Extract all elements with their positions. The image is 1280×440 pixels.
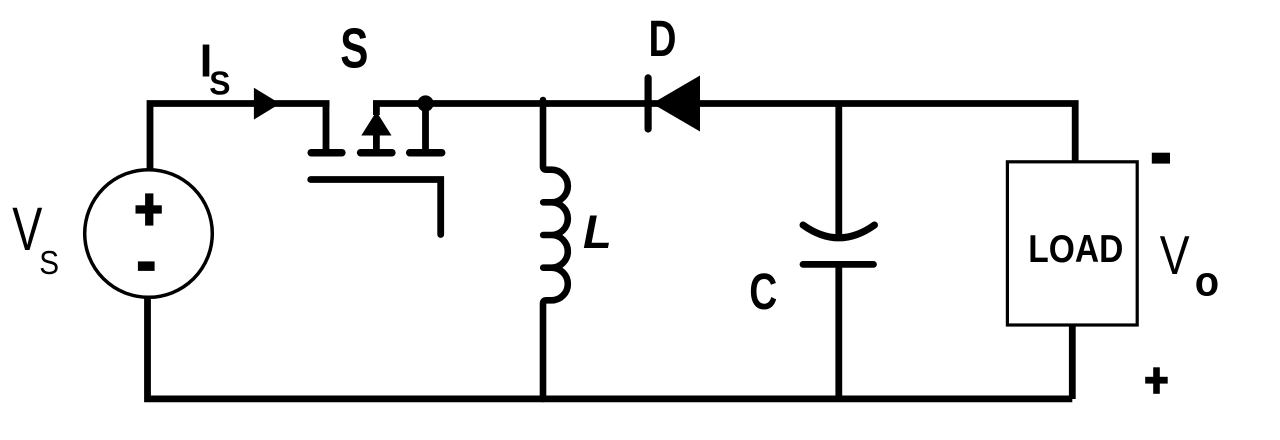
svg-text:S: S (39, 245, 59, 282)
cathode bar (644, 78, 651, 129)
left channel bar (311, 149, 342, 157)
bottom wire (835, 264, 842, 399)
gate line (311, 180, 441, 235)
wire load bottom to rail (1069, 326, 1076, 399)
node dot at source/rail junction (417, 95, 433, 111)
source stub (422, 104, 429, 150)
label Vo (1160, 225, 1219, 305)
svg-text:D: D (649, 10, 677, 67)
anode triangle (652, 76, 700, 132)
label plus (bottom of load) (1145, 367, 1168, 394)
load box (1007, 162, 1137, 325)
label Is (200, 35, 231, 102)
curved plate (803, 225, 875, 238)
voltage source VS (85, 170, 213, 298)
middle channel bar (361, 149, 392, 157)
body arrow stub (373, 104, 380, 116)
wire top rail right segment (373, 104, 1075, 163)
svg-text:C: C (749, 263, 777, 320)
wire left vertical from Vs top to rail (150, 104, 330, 171)
right channel bar (410, 149, 442, 157)
svg-text:S: S (209, 64, 230, 102)
label VS (12, 196, 59, 282)
svg-text:L: L (583, 205, 612, 258)
transistor S (MOSFET switch) (311, 101, 442, 235)
capacitor C (803, 104, 875, 400)
current arrow Is (254, 88, 280, 120)
svg-text:V: V (12, 196, 42, 264)
svg-text:LOAD: LOAD (1028, 226, 1123, 270)
wire bottom rail (148, 297, 1073, 399)
svg-text:S: S (340, 16, 368, 80)
label minus (top of load) (1152, 153, 1170, 164)
svg-text:V: V (1160, 225, 1190, 286)
straight plate (803, 261, 874, 268)
top wire (835, 104, 842, 238)
diode D (648, 76, 700, 132)
inductor L (543, 100, 568, 399)
svg-text:o: o (1195, 258, 1219, 305)
body diode arrow (361, 112, 391, 136)
drain stub (323, 101, 330, 150)
